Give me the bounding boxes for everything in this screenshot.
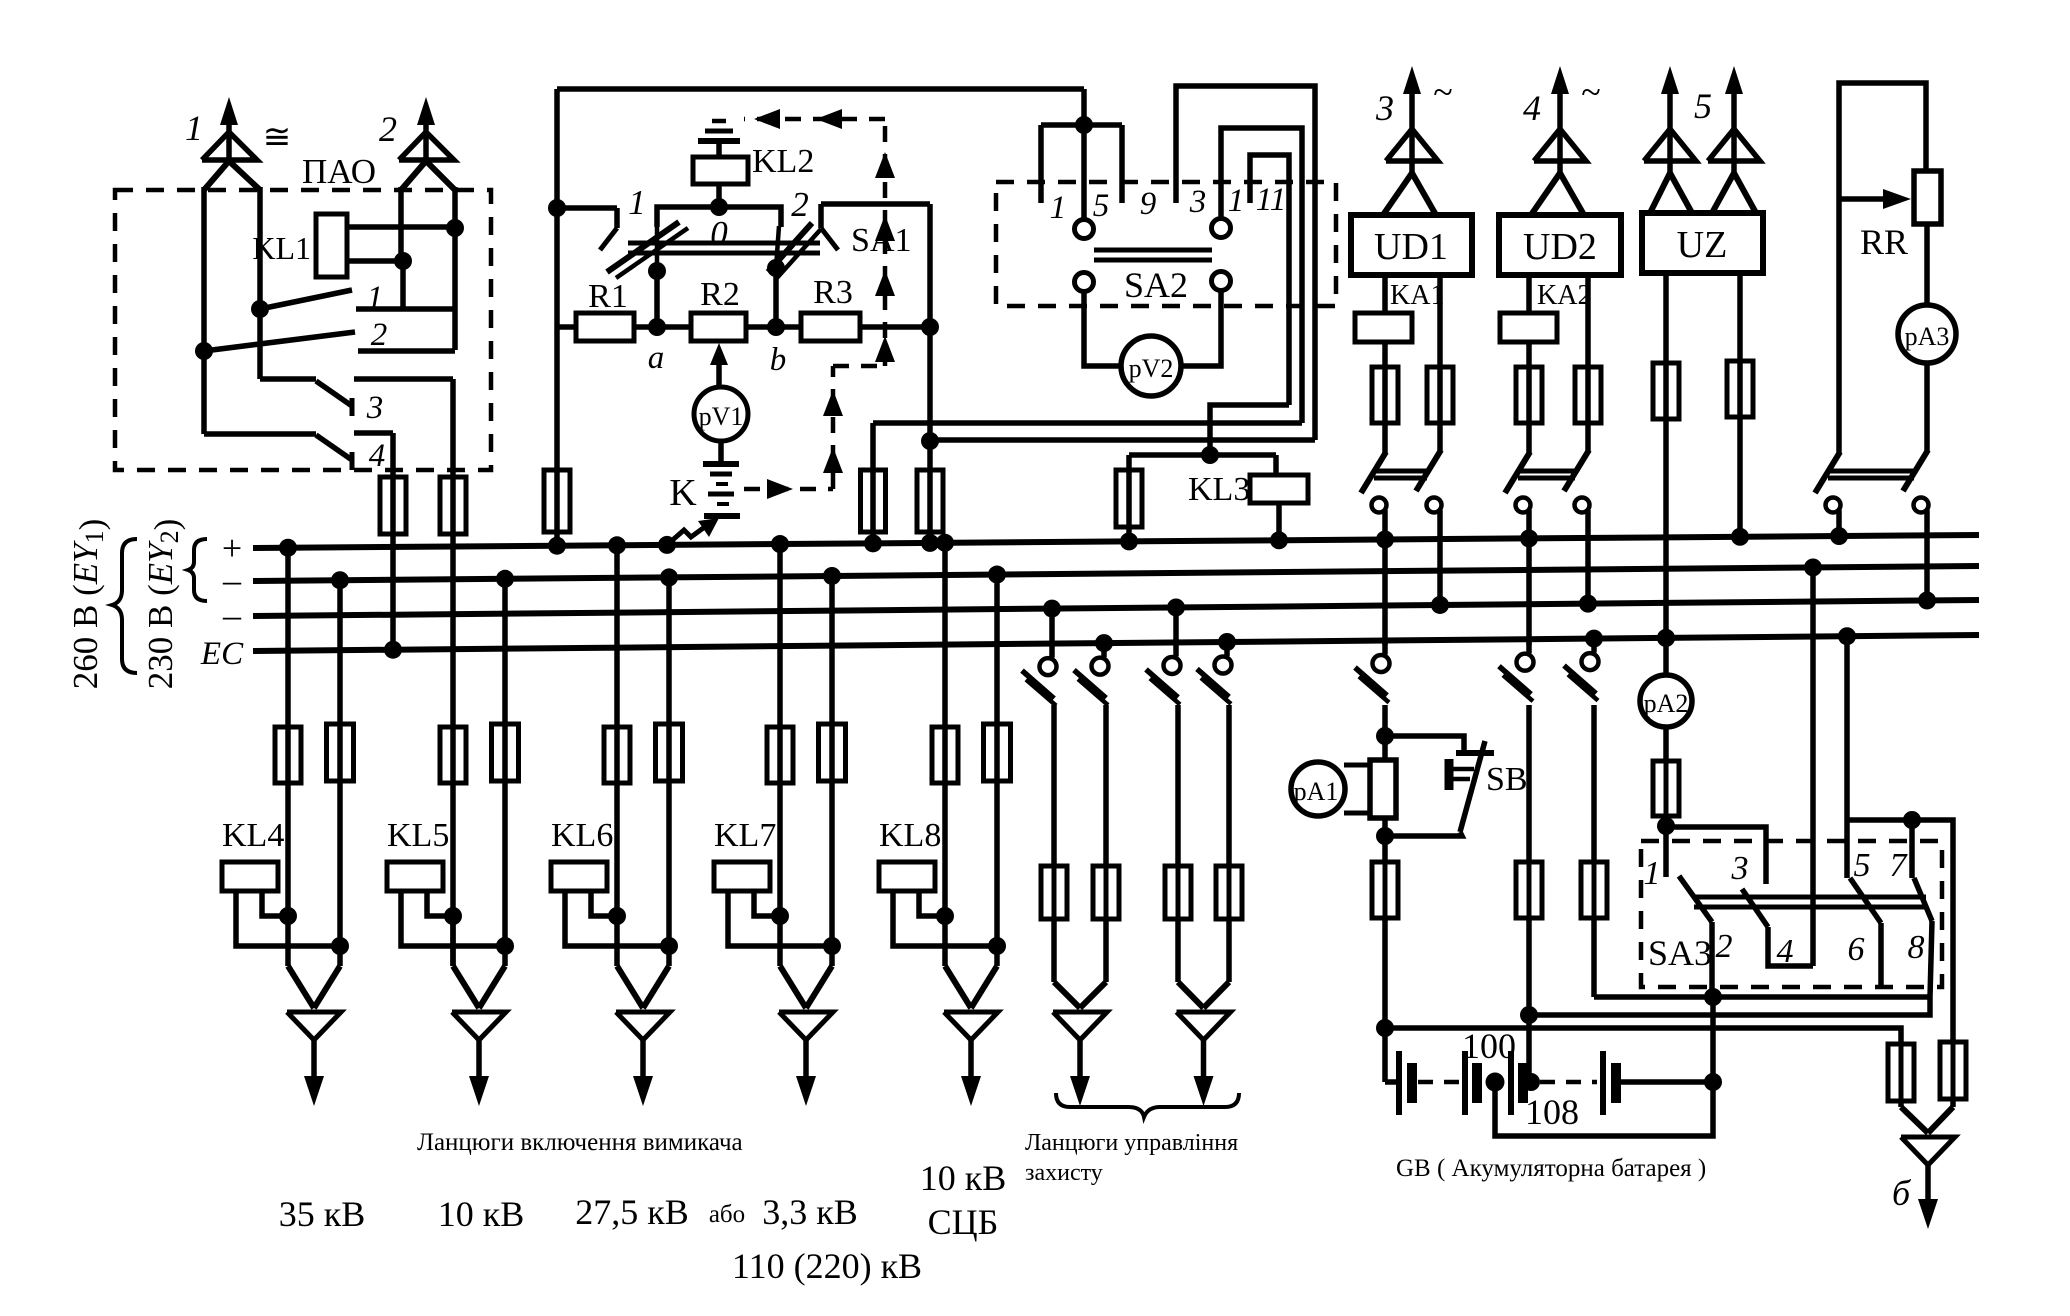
- wire right rail vertical: [927, 204, 933, 470]
- contact from bus 4 at x=1104: [1095, 634, 1113, 652]
- wire down to fuse: [1051, 705, 1057, 866]
- SA3 terminal 5 feed from EC bus: [1838, 627, 1856, 645]
- wire R2 to node b: [746, 324, 801, 330]
- wire left rail vertical: [554, 89, 560, 470]
- svg-text:KA2: KA2: [1537, 280, 1591, 311]
- svg-text:СЦБ: СЦБ: [928, 1202, 999, 1242]
- svg-text:2: 2: [371, 317, 388, 353]
- wire RR body to pA3: [1924, 224, 1930, 305]
- svg-text:EC: EC: [200, 636, 244, 672]
- node junction SA3 terminal 1: [1657, 817, 1675, 835]
- svg-text:Ланцюги включення вимикача: Ланцюги включення вимикача: [417, 1129, 743, 1156]
- svg-text:27,5 кВ: 27,5 кВ: [575, 1192, 689, 1232]
- wire pV2 left: [1084, 292, 1121, 366]
- probe K battery stack: [703, 461, 739, 467]
- svg-text:4: 4: [1777, 933, 1794, 970]
- bus - 230V EY2 busbar: [253, 600, 1979, 616]
- wire KL2 to SA1 bracket: [716, 184, 722, 207]
- wire SA2 crossbar: [1041, 122, 1122, 128]
- wire line A: [1594, 994, 1930, 1000]
- brace for 230V buses: [188, 539, 207, 601]
- SA2 terminal tick 1: [1038, 125, 1044, 203]
- wire R3 to right rail: [860, 324, 930, 330]
- breaker contacts under UD1: [1382, 446, 1388, 453]
- svg-text:KL6: KL6: [551, 817, 613, 854]
- ground symbol above KL2: [716, 143, 722, 157]
- wire arrow1 right leg: [257, 187, 263, 309]
- dashed measuring path jog: [833, 364, 885, 369]
- wire KL5 right column from - bus: [496, 570, 514, 588]
- node b: [767, 318, 785, 336]
- svg-text:8: 8: [1908, 929, 1925, 966]
- fuse: [1176, 866, 1181, 919]
- wire 108 tap U: [1495, 1082, 1713, 1136]
- svg-text:1: 1: [1050, 190, 1067, 226]
- SA3 terminal 1 stem: [1663, 826, 1669, 877]
- wire KL5 left column (from PAO exit): [450, 919, 456, 966]
- wire PAO exit right: [450, 379, 456, 477]
- svg-text:0: 0: [710, 214, 728, 253]
- wire KL7 left column from + bus: [771, 535, 789, 553]
- svg-text:100: 100: [1462, 1026, 1516, 1066]
- wire pV1 to K probe: [718, 441, 724, 462]
- fuse UZ right: [1737, 361, 1743, 417]
- resistor R2: [691, 313, 746, 341]
- SA3 blade 7-8: [1914, 878, 1932, 921]
- wire KL1 top to arrow2 right leg: [347, 224, 455, 230]
- fuse KL7 right column: [830, 724, 835, 781]
- battery dashed middle segment: [1540, 1080, 1597, 1085]
- fuse UD2 left: [1526, 367, 1532, 423]
- wire PAO right exit down to KL5 column: [450, 534, 456, 966]
- wire RR left rail: [1836, 199, 1842, 446]
- svg-text:GB ( Акумуляторна батарея ): GB ( Акумуляторна батарея ): [1396, 1155, 1706, 1182]
- relay KL7: [714, 862, 770, 891]
- wire UD1 left to + bus and battery column: [1382, 524, 1388, 539]
- svg-text:KA1: KA1: [1390, 280, 1444, 311]
- relay KL4: [222, 862, 278, 891]
- bus - busbar: [253, 566, 1979, 581]
- node junction line A: [1704, 988, 1722, 1006]
- svg-text:–: –: [222, 595, 242, 635]
- wire KL7 coil bottom to right column: [728, 891, 832, 946]
- rheostat RR body: [1914, 171, 1941, 224]
- wire pA2 to fuse: [1663, 727, 1669, 761]
- node junction left rail on + bus: [548, 537, 566, 555]
- wire UZ left to EC bus: [1663, 419, 1669, 638]
- wire UD2 right to bus 3: [1585, 524, 1591, 604]
- node junction SB branch bottom: [1376, 827, 1394, 845]
- wire H1 corner down: [870, 423, 876, 470]
- svg-text:3: 3: [1375, 88, 1394, 128]
- fuse on H1 drop: [870, 470, 876, 532]
- wire KL6 coil to left column: [591, 891, 617, 916]
- ammeter pA1 with shunt: [1291, 762, 1345, 816]
- fuse KL4 right column: [338, 724, 343, 781]
- middle bracket to SA2 contact 3: [1221, 128, 1302, 423]
- fuse b-arrow left: [1899, 1044, 1904, 1101]
- svg-text:pA3: pA3: [1905, 322, 1950, 351]
- svg-text:≅: ≅: [263, 119, 292, 156]
- wire arrow2 right leg: [452, 187, 458, 350]
- svg-text:1: 1: [185, 108, 203, 148]
- SA3 exit 2: [1709, 922, 1715, 997]
- wire KL5 coil bottom to right column: [401, 891, 505, 946]
- SA3 movable double bar: [1694, 895, 1926, 900]
- svg-text:1: 1: [628, 183, 646, 222]
- wire KL7 coil to left column: [754, 891, 780, 916]
- wire UD1 right output: [1437, 275, 1443, 367]
- wire UD2 left to + bus and battery column: [1526, 524, 1532, 538]
- wire pV2 right: [1181, 291, 1221, 366]
- svg-text:7: 7: [1890, 847, 1909, 884]
- fuse KL6 left column: [615, 727, 620, 783]
- wire left rail to bus: [554, 532, 560, 546]
- wire UZ right output: [1737, 273, 1743, 361]
- wire H1 long horizontal to SA2: [873, 420, 1302, 426]
- svg-text:260 В (EY1): 260 В (EY1): [66, 519, 111, 690]
- SA2 terminal tick 5: [1119, 125, 1125, 203]
- wire UZ right to + bus: [1737, 417, 1743, 537]
- svg-text:SB: SB: [1486, 761, 1528, 798]
- wire KL5 coil to left column: [427, 891, 453, 916]
- SA3 exit 4: [1768, 927, 1813, 966]
- fuse KL7 left column: [778, 727, 783, 783]
- fuse UD1 left: [1382, 367, 1388, 423]
- output arrow KL7: [780, 966, 806, 1008]
- wire down to fuse: [1226, 705, 1232, 866]
- node junction KL1 top: [446, 219, 464, 237]
- svg-text:SA3: SA3: [1648, 933, 1712, 973]
- wire KL4 right column from - bus: [331, 571, 349, 589]
- fuse: [1227, 866, 1232, 919]
- dashed measuring path upper vertical: [883, 119, 888, 366]
- wire UZ left output: [1663, 273, 1669, 363]
- rheostat RR loop top: [1839, 83, 1926, 199]
- wire top rail corner into SA2: [1081, 89, 1087, 125]
- svg-text:110 (220) кВ: 110 (220) кВ: [732, 1246, 922, 1286]
- output arrow KL8: [945, 966, 971, 1008]
- wire KL6 coil bottom to right column: [565, 891, 669, 946]
- fuse KL6 right column: [667, 724, 672, 781]
- dashed box SA2: [996, 182, 1336, 306]
- wire pA3 down: [1924, 363, 1930, 446]
- battery middle cell plates: [1462, 1051, 1468, 1115]
- fuse on right rail: [927, 470, 933, 532]
- wire PAO left exit to EC bus: [390, 534, 396, 650]
- wire SA3-4 to - bus: [1804, 558, 1822, 576]
- svg-text:KL2: KL2: [752, 143, 814, 180]
- battery right cell plates: [1600, 1051, 1606, 1115]
- wire UD2 left output: [1526, 275, 1532, 313]
- ammeter pA3: [1898, 305, 1956, 363]
- output arrow protection pair 2: [1178, 982, 1204, 1008]
- svg-text:2: 2: [791, 185, 809, 224]
- wire top rail horizontal: [557, 86, 1084, 92]
- svg-text:б: б: [1892, 1173, 1912, 1213]
- svg-text:~: ~: [1581, 72, 1600, 112]
- fuse battery column 1: [1382, 836, 1388, 862]
- svg-text:SA2: SA2: [1124, 265, 1188, 305]
- node b stem: [767, 259, 785, 277]
- SA1 blade 1: [600, 228, 617, 250]
- relay KL1: [316, 214, 347, 277]
- SA1 contact 2 feed: [821, 201, 930, 207]
- voltmeter pV2: [1121, 336, 1181, 396]
- wire arrow2 left leg: [398, 187, 404, 261]
- node junction line C left: [1376, 1019, 1394, 1037]
- svg-text:a: a: [648, 340, 665, 376]
- SA3 blade 5-6: [1850, 878, 1881, 923]
- node junction KL1 lower: [394, 252, 412, 270]
- output arrow KL5: [453, 966, 479, 1008]
- svg-text:R3: R3: [813, 274, 853, 311]
- wire battery right end: [1620, 1079, 1713, 1085]
- svg-text:10 кВ: 10 кВ: [438, 1194, 525, 1234]
- node junction 108 tap: [1486, 1073, 1505, 1092]
- SA3 exit 6: [1878, 923, 1884, 985]
- SA3 blade 1-2: [1679, 876, 1712, 922]
- svg-text:5: 5: [1093, 188, 1110, 224]
- contact 2 of PAO: [195, 342, 213, 360]
- SA3 blade 3-4: [1742, 889, 1768, 927]
- svg-text:RR: RR: [1860, 222, 1908, 262]
- wire KL8 right column from - bus: [988, 566, 1006, 584]
- fuse battery column 3: [1592, 862, 1597, 918]
- relay KA2: [1500, 313, 1557, 342]
- dashed measuring path bottom horizontal: [744, 487, 833, 492]
- relay KA1: [1355, 313, 1412, 342]
- wire stem to SA2 contact 1: [1081, 125, 1087, 219]
- fuse: [1052, 866, 1057, 919]
- svg-text:5: 5: [1694, 86, 1712, 126]
- svg-text:108: 108: [1525, 1092, 1579, 1132]
- fuse on PAO right exit: [450, 477, 456, 534]
- svg-text:1: 1: [367, 280, 384, 316]
- battery column 1 contact below EC: [1382, 641, 1388, 655]
- wire KL4 coil to left column: [262, 891, 288, 916]
- svg-text:3: 3: [1731, 850, 1749, 887]
- SA3 terminal 3 feed: [1666, 827, 1766, 884]
- SA2 contact circles left: [1075, 220, 1094, 239]
- resistor R3: [801, 313, 860, 341]
- wire KL6 left column from + bus: [608, 536, 626, 554]
- wire KL8 left column from + bus: [936, 534, 954, 552]
- svg-text:KL5: KL5: [387, 817, 449, 854]
- wire down to fuse: [1175, 705, 1181, 866]
- relay KL8: [879, 862, 935, 891]
- wire KL6 right column from - bus: [660, 568, 678, 586]
- fuse KL5 left column: [451, 727, 456, 783]
- output arrow KL6: [617, 966, 643, 1008]
- wire RR right to bus 3: [1924, 524, 1930, 600]
- fuse battery column 2: [1527, 862, 1532, 918]
- svg-text:9: 9: [1140, 186, 1157, 222]
- fuse on KL3 branch: [1126, 455, 1132, 470]
- wire line C: [1385, 1028, 1901, 1044]
- fuse KL8 right column: [995, 724, 1000, 781]
- rectifier UD2: [1499, 215, 1621, 275]
- contact from bus 3 at x=1176: [1167, 598, 1185, 616]
- node junction column2 on battery row: [1522, 1073, 1540, 1091]
- wire KL1 lower to arrow2 left leg: [347, 258, 403, 264]
- output arrow KL4: [288, 966, 314, 1008]
- fuse UD1 right: [1437, 367, 1443, 423]
- svg-text:b: b: [770, 342, 787, 378]
- node junction right rail on + bus: [921, 534, 939, 552]
- wire KL3 to + bus: [1276, 503, 1282, 540]
- svg-text:11: 11: [1256, 182, 1287, 218]
- contact 4 of PAO: [201, 351, 207, 434]
- node junction right rail top: [921, 318, 939, 336]
- svg-text:KL4: KL4: [222, 817, 284, 854]
- svg-text:R1: R1: [588, 278, 628, 315]
- svg-text:UD2: UD2: [1523, 226, 1597, 268]
- svg-text:pV2: pV2: [1129, 354, 1174, 383]
- resistor R1: [576, 313, 634, 341]
- svg-text:3: 3: [366, 390, 384, 426]
- svg-text:1: 1: [1228, 183, 1245, 219]
- svg-text:KL3: KL3: [1188, 471, 1250, 508]
- svg-text:або: або: [709, 1201, 745, 1228]
- breaker contacts under RR: [1836, 446, 1842, 453]
- dashed measuring path top horizontal: [744, 117, 885, 122]
- contact 3 of PAO: [257, 309, 263, 379]
- breaker contacts under UD2: [1526, 446, 1532, 453]
- inner bracket SA2 terminal 11: [1250, 155, 1289, 405]
- fuse KL4 left column: [286, 727, 291, 783]
- svg-text:UZ: UZ: [1677, 224, 1728, 266]
- svg-text:K: K: [669, 472, 697, 514]
- SA1 blade 2: [821, 228, 838, 250]
- fuse b-arrow right: [1951, 1042, 1956, 1099]
- wire KL4 coil bottom to right column: [236, 891, 340, 946]
- wire pV1 tap to R2: [716, 354, 722, 387]
- bus EC busbar: [253, 635, 1979, 651]
- wire UD2 right output: [1585, 275, 1591, 367]
- svg-text:–: –: [222, 560, 242, 600]
- dashed box PAO: [115, 190, 491, 470]
- svg-text:R2: R2: [700, 276, 740, 313]
- wire arrow1 left leg: [201, 187, 207, 351]
- relay KL2: [693, 157, 748, 184]
- wire KL7 right column from - bus: [823, 567, 841, 585]
- brace for 260V buses: [112, 539, 137, 673]
- svg-text:2: 2: [379, 109, 397, 149]
- relay KL5: [387, 862, 443, 891]
- node junction KL3 fuse on + bus: [1120, 532, 1138, 550]
- svg-text:захисту: захисту: [1025, 1160, 1103, 1186]
- node junction on EC bus: [384, 641, 402, 659]
- svg-text:2: 2: [1716, 928, 1733, 965]
- probe K zigzag arrow from bus: [658, 536, 676, 554]
- wire fuse2 feed from terminal 7 bracket: [1912, 820, 1953, 1042]
- brace protection outputs: [1056, 1093, 1239, 1117]
- svg-text:pA2: pA2: [1644, 689, 1689, 718]
- wire UD1 left output: [1382, 275, 1388, 313]
- wire down to fuse: [1103, 705, 1109, 866]
- relay KL3: [1250, 475, 1308, 503]
- dashed box SA3: [1641, 841, 1942, 987]
- fuse: [1104, 866, 1109, 919]
- fuse UD2 right: [1585, 367, 1591, 423]
- voltmeter pV1: [694, 387, 748, 441]
- svg-text:3,3 кВ: 3,3 кВ: [762, 1192, 858, 1232]
- wire RR left to + bus: [1836, 524, 1842, 536]
- node a stem: [648, 262, 666, 280]
- node junction line B left: [1520, 1006, 1538, 1024]
- svg-text:pA1: pA1: [1294, 777, 1339, 806]
- svg-text:5: 5: [1854, 847, 1871, 884]
- svg-text:10 кВ: 10 кВ: [920, 1158, 1007, 1198]
- battery GB row: [1385, 1079, 1397, 1085]
- SA2 contact circles right: [1212, 219, 1231, 238]
- push button SB: [1385, 736, 1464, 753]
- fuse UZ left: [1663, 363, 1669, 419]
- fuse KL8 left column: [943, 727, 948, 783]
- svg-text:pV1: pV1: [699, 402, 744, 431]
- svg-text:6: 6: [1848, 931, 1865, 968]
- svg-text:ПАО: ПАО: [302, 152, 376, 191]
- SA3 exit 8: [1930, 921, 1932, 997]
- contact from bus 4 at x=1227: [1218, 633, 1236, 651]
- svg-text:UD1: UD1: [1374, 226, 1448, 268]
- wire UD1 right to bus 3: [1437, 524, 1443, 605]
- wire PAO exit left: [390, 433, 396, 477]
- dashed measuring path lower vertical: [831, 366, 836, 489]
- svg-text:35 кВ: 35 кВ: [279, 1194, 366, 1234]
- svg-text:KL7: KL7: [714, 817, 776, 854]
- fuse KL5 right column: [503, 724, 508, 781]
- svg-text:4: 4: [1523, 88, 1541, 128]
- wire KA2 to fuse: [1526, 342, 1532, 367]
- big bracket over SA2 terminal 3: [1176, 86, 1315, 440]
- svg-text:230 В (EY2): 230 В (EY2): [141, 519, 186, 690]
- contact 1 of PAO: [251, 300, 269, 318]
- wire R1 to node a: [634, 324, 691, 330]
- resistor row wire: [557, 324, 576, 330]
- node junction battery right: [1704, 1073, 1722, 1091]
- fuse on PAO left exit: [390, 477, 396, 534]
- output arrow b: [1901, 1107, 1928, 1133]
- battery column 3 contact below EC: [1585, 630, 1603, 648]
- source arrow 5 left: [1661, 66, 1679, 94]
- node junction SB branch top: [1376, 727, 1394, 745]
- svg-text:4: 4: [369, 438, 386, 474]
- wire KL8 coil bottom to right column: [893, 891, 997, 946]
- output arrow protection pair 1: [1054, 982, 1080, 1008]
- svg-text:3: 3: [1189, 184, 1207, 220]
- wire line B: [1529, 997, 1930, 1015]
- node a: [648, 318, 666, 336]
- relay KL6: [551, 862, 607, 891]
- contact from bus 3 at x=1052: [1043, 600, 1061, 618]
- node junction H1 drop on + bus: [864, 534, 882, 552]
- wire KL3 down corner: [1273, 455, 1279, 475]
- wire H2 long horizontal to SA2: [930, 437, 1315, 443]
- rectifier UD1: [1351, 215, 1472, 275]
- wire KL4 left column from + bus: [279, 539, 297, 557]
- rheostat RR wiper arrow: [1839, 196, 1884, 202]
- wire KA1 to fuse: [1382, 342, 1388, 367]
- charger UZ: [1642, 213, 1763, 273]
- svg-text:KL8: KL8: [879, 817, 941, 854]
- SA2 movable double bar: [1094, 248, 1212, 253]
- battery column 2 contact below EC: [1526, 639, 1532, 653]
- wire SA1 center bracket: [657, 207, 781, 227]
- wire KL8 coil to left column: [919, 891, 945, 916]
- svg-text:~: ~: [1433, 72, 1452, 112]
